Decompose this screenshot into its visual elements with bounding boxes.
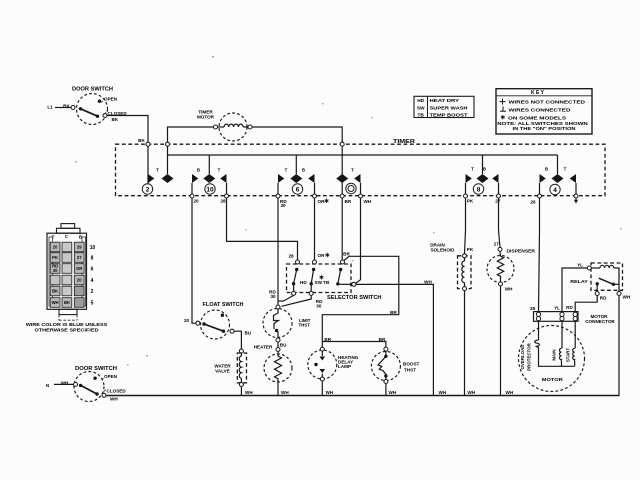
svg-text:BR: BR xyxy=(345,199,352,204)
svg-text:BK: BK xyxy=(52,289,58,294)
svg-text:WH: WH xyxy=(623,295,631,300)
svg-text:4: 4 xyxy=(553,187,557,194)
svg-text:PK: PK xyxy=(467,247,474,252)
svg-text:SUPER WASH: SUPER WASH xyxy=(430,105,469,111)
svg-text:HD: HD xyxy=(417,98,424,104)
svg-text:30: 30 xyxy=(53,268,58,273)
svg-text:4: 4 xyxy=(91,278,94,284)
svg-text:OR: OR xyxy=(76,266,82,271)
svg-text:BR: BR xyxy=(379,337,386,342)
svg-text:BR: BR xyxy=(390,310,397,315)
svg-text:WH: WH xyxy=(326,390,334,395)
svg-text:L1: L1 xyxy=(47,105,53,110)
svg-text:KEY: KEY xyxy=(531,90,545,96)
svg-text:OVERLOAD: OVERLOAD xyxy=(520,345,525,370)
svg-text:WH: WH xyxy=(281,390,289,395)
svg-text:CONNECTOR: CONNECTOR xyxy=(585,319,615,324)
svg-text:WH: WH xyxy=(389,390,397,395)
svg-text:OR: OR xyxy=(318,199,326,204)
svg-text:OTHERWISE SPECIFIED: OTHERWISE SPECIFIED xyxy=(35,327,100,333)
svg-text:BR: BR xyxy=(324,337,331,342)
svg-text:BK: BK xyxy=(112,117,119,122)
svg-text:THST: THST xyxy=(298,323,310,328)
svg-text:HEAT DRY: HEAT DRY xyxy=(430,98,460,104)
svg-text:WH: WH xyxy=(52,300,59,305)
svg-text:DOOR SWITCH: DOOR SWITCH xyxy=(75,366,117,372)
svg-text:BU: BU xyxy=(245,330,252,335)
svg-text:RELAY: RELAY xyxy=(570,279,588,284)
svg-text:B: B xyxy=(79,235,82,240)
svg-text:HD: HD xyxy=(300,280,307,285)
svg-text:START: START xyxy=(565,348,570,363)
svg-text:ON SOME MODELS: ON SOME MODELS xyxy=(508,115,567,121)
svg-text:SW TB: SW TB xyxy=(315,280,330,285)
svg-text:SW: SW xyxy=(417,105,425,111)
svg-text:MOTOR: MOTOR xyxy=(542,377,564,382)
svg-text:THST: THST xyxy=(404,368,416,373)
svg-text:OPEN: OPEN xyxy=(104,96,118,101)
svg-text:29: 29 xyxy=(77,245,82,250)
svg-text:T: T xyxy=(564,167,567,172)
svg-text:BK: BK xyxy=(64,300,70,305)
svg-text:WIRE COLOR IS BLUE UNLESS: WIRE COLOR IS BLUE UNLESS xyxy=(26,322,108,328)
svg-text:28: 28 xyxy=(288,253,294,258)
svg-text:DISPENSER: DISPENSER xyxy=(507,248,536,253)
svg-text:T: T xyxy=(351,168,354,173)
svg-text:VALVE: VALVE xyxy=(215,369,230,374)
svg-text:10: 10 xyxy=(206,186,214,193)
svg-text:WH: WH xyxy=(439,390,447,395)
svg-text:2: 2 xyxy=(146,186,150,193)
svg-text:6: 6 xyxy=(91,266,94,272)
svg-text:MOTOR: MOTOR xyxy=(197,115,215,120)
svg-text:YL: YL xyxy=(554,306,560,311)
svg-text:TB: TB xyxy=(417,112,424,118)
svg-text:20: 20 xyxy=(184,318,190,323)
svg-text:SOLENOID: SOLENOID xyxy=(431,248,456,253)
svg-text:20: 20 xyxy=(194,199,200,204)
svg-text:RD: RD xyxy=(566,305,573,310)
svg-text:TEMP BOOST: TEMP BOOST xyxy=(430,112,468,118)
svg-text:2: 2 xyxy=(91,289,94,295)
svg-text:6: 6 xyxy=(296,186,300,193)
svg-text:30: 30 xyxy=(316,304,322,309)
svg-text:CLOSED: CLOSED xyxy=(107,389,127,394)
svg-text:OPEN: OPEN xyxy=(104,374,118,379)
svg-text:T: T xyxy=(218,168,221,173)
svg-text:PK: PK xyxy=(52,255,58,260)
svg-text:CLOSED: CLOSED xyxy=(108,111,128,116)
svg-text:WIRES CONNECTED: WIRES CONNECTED xyxy=(509,107,572,113)
svg-text:PK: PK xyxy=(467,198,474,203)
svg-text:B: B xyxy=(483,167,486,172)
svg-text:TIMER: TIMER xyxy=(393,139,416,145)
svg-text:WIRES NOT CONNECTED: WIRES NOT CONNECTED xyxy=(509,100,586,106)
svg-text:27: 27 xyxy=(77,255,82,260)
svg-text:DOOR SWITCH: DOOR SWITCH xyxy=(72,87,113,93)
svg-text:WH: WH xyxy=(364,199,372,204)
svg-text:27: 27 xyxy=(494,241,500,246)
svg-text:WH: WH xyxy=(505,287,513,292)
svg-text:WH: WH xyxy=(424,279,432,284)
svg-text:LAMP: LAMP xyxy=(338,364,351,369)
svg-text:30: 30 xyxy=(281,203,287,208)
svg-text:WH: WH xyxy=(468,390,476,395)
svg-text:BK: BK xyxy=(138,138,145,143)
svg-text:WH: WH xyxy=(110,396,118,401)
svg-text:26: 26 xyxy=(531,200,537,205)
svg-text:OR: OR xyxy=(318,253,326,258)
svg-text:T: T xyxy=(285,168,288,173)
svg-text:B: B xyxy=(545,167,548,172)
svg-text:MAIN: MAIN xyxy=(552,349,557,360)
svg-text:8: 8 xyxy=(91,255,94,261)
svg-text:FLOAT SWITCH: FLOAT SWITCH xyxy=(203,302,244,308)
svg-text:SELECTOR SWITCH: SELECTOR SWITCH xyxy=(327,295,382,301)
svg-text:BU: BU xyxy=(280,343,287,348)
svg-text:T: T xyxy=(52,235,55,240)
svg-text:28: 28 xyxy=(530,306,536,311)
svg-text:YL: YL xyxy=(577,262,583,267)
svg-text:T: T xyxy=(471,167,474,172)
svg-text:RD: RD xyxy=(600,295,607,300)
svg-text:PROTECTOR: PROTECTOR xyxy=(527,342,532,370)
svg-text:WH: WH xyxy=(506,390,514,395)
svg-text:WH: WH xyxy=(245,390,253,395)
svg-text:20: 20 xyxy=(77,278,82,283)
svg-text:T: T xyxy=(156,168,159,173)
svg-text:IN THE "ON" POSITION: IN THE "ON" POSITION xyxy=(513,126,577,132)
svg-text:B: B xyxy=(197,168,200,173)
svg-text:5: 5 xyxy=(91,300,94,306)
svg-text:8: 8 xyxy=(477,186,481,193)
svg-text:28: 28 xyxy=(221,199,227,204)
svg-text:BR: BR xyxy=(343,251,350,256)
svg-text:30: 30 xyxy=(270,294,276,299)
svg-text:B: B xyxy=(302,168,305,173)
svg-text:20: 20 xyxy=(53,245,58,250)
svg-text:10: 10 xyxy=(90,245,96,251)
svg-text:BOOST: BOOST xyxy=(403,362,420,367)
svg-text:HEATER: HEATER xyxy=(254,345,273,350)
